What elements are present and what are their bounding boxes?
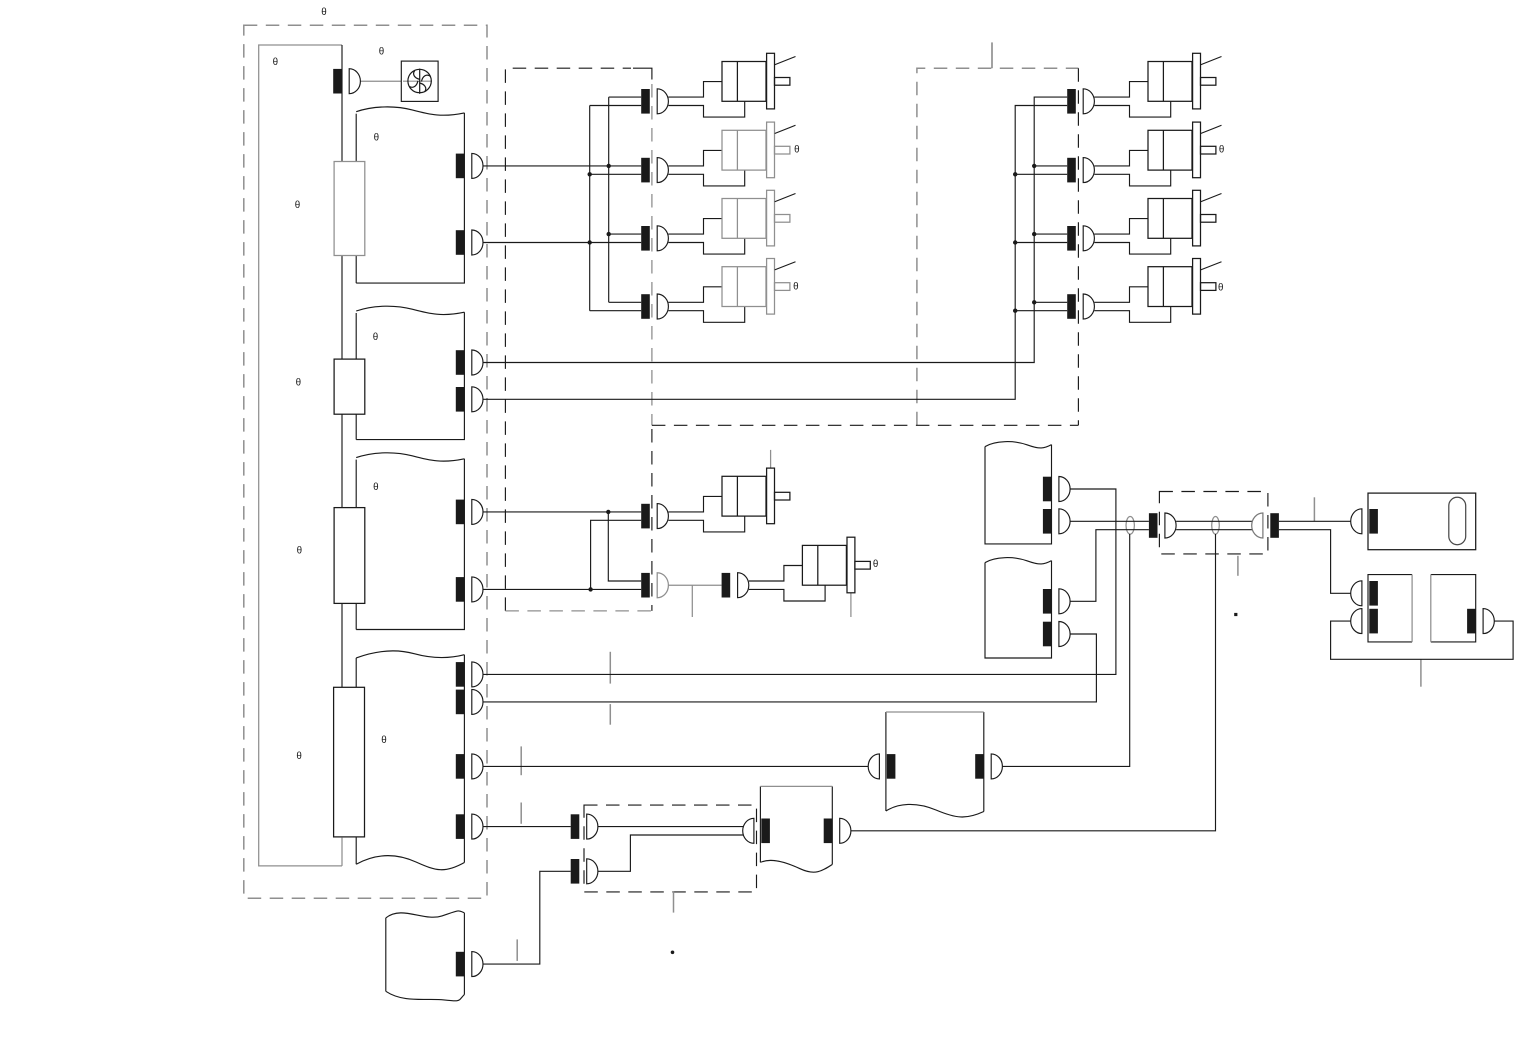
svg-text:θ: θ [794, 145, 799, 156]
svg-text:θ: θ [321, 7, 326, 18]
svg-text:θ: θ [296, 377, 301, 388]
svg-text:θ: θ [374, 133, 379, 144]
svg-text:θ: θ [381, 735, 386, 746]
svg-text:θ: θ [273, 57, 278, 68]
svg-text:θ: θ [793, 282, 798, 293]
svg-text:θ: θ [379, 47, 384, 58]
svg-text:θ: θ [1218, 283, 1223, 294]
svg-text:θ: θ [295, 200, 300, 211]
svg-text:θ: θ [373, 332, 378, 343]
svg-text:θ: θ [873, 559, 878, 570]
svg-text:θ: θ [297, 546, 302, 557]
svg-text:θ: θ [296, 751, 301, 762]
svg-text:θ: θ [1219, 144, 1224, 155]
svg-text:θ: θ [373, 482, 378, 493]
